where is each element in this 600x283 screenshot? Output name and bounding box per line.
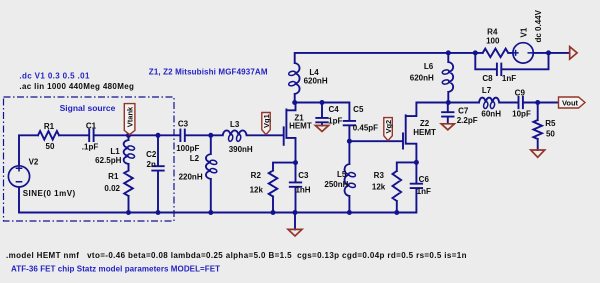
svg-text:R5: R5 — [545, 119, 556, 128]
svg-text:L7: L7 — [482, 86, 492, 95]
svg-text:60nH: 60nH — [481, 110, 501, 119]
svg-text:0.02: 0.02 — [104, 184, 120, 193]
svg-text:C2: C2 — [146, 150, 157, 159]
svg-text:L1: L1 — [110, 147, 120, 156]
svg-text:Vtank: Vtank — [126, 106, 135, 127]
svg-text:1nF: 1nF — [417, 187, 431, 196]
svg-text:100pF: 100pF — [176, 144, 199, 153]
svg-text:C4: C4 — [328, 105, 339, 114]
svg-text:Vout: Vout — [562, 98, 579, 107]
svg-text:HEMT: HEMT — [413, 128, 436, 137]
svg-text:Vg2: Vg2 — [384, 120, 393, 134]
svg-text:C7: C7 — [458, 106, 469, 115]
svg-text:C3: C3 — [298, 171, 309, 180]
svg-text:C3: C3 — [178, 119, 189, 128]
svg-text:.1pF: .1pF — [82, 142, 99, 151]
svg-text:C1: C1 — [86, 122, 97, 131]
svg-text:HEMT: HEMT — [289, 122, 312, 131]
svg-text:C6: C6 — [419, 175, 430, 184]
svg-text:12k: 12k — [250, 185, 264, 194]
svg-text:R2: R2 — [251, 171, 262, 180]
svg-text:R4: R4 — [487, 28, 498, 37]
svg-text:620nH: 620nH — [304, 77, 328, 86]
svg-text:100: 100 — [486, 37, 500, 46]
svg-text:.model HEMT nmf vto=-0.46 be: .model HEMT nmf vto=-0.46 beta=0.08 lamb… — [6, 251, 467, 260]
svg-text:L3: L3 — [230, 120, 240, 129]
svg-text:50: 50 — [546, 129, 555, 138]
svg-text:2.2pF: 2.2pF — [457, 116, 478, 125]
svg-text:L5: L5 — [337, 170, 347, 179]
svg-text:C9: C9 — [515, 88, 526, 97]
svg-text:50: 50 — [46, 142, 55, 151]
svg-text:.dc V1 0.3 0.5 .01: .dc V1 0.3 0.5 .01 — [19, 71, 90, 80]
svg-text:V2: V2 — [29, 157, 39, 166]
svg-text:Z1, Z2 Mitsubishi MGF4937AM: Z1, Z2 Mitsubishi MGF4937AM — [149, 67, 268, 76]
svg-text:V1: V1 — [520, 27, 529, 37]
svg-text:L2: L2 — [190, 154, 200, 163]
svg-text:1nH: 1nH — [295, 185, 310, 194]
svg-text:Signal source: Signal source — [60, 103, 116, 113]
svg-text:SINE(0 1mV): SINE(0 1mV) — [23, 189, 76, 198]
svg-text:0.45pF: 0.45pF — [353, 123, 378, 132]
svg-text:C8: C8 — [482, 74, 493, 83]
svg-text:62.5pH: 62.5pH — [95, 156, 121, 165]
svg-text:C5: C5 — [353, 105, 364, 114]
svg-text:10pF: 10pF — [512, 110, 531, 119]
svg-text:2n: 2n — [147, 160, 156, 169]
svg-text:Z2: Z2 — [420, 119, 430, 128]
svg-text:ATF-36 FET chip Statz model pa: ATF-36 FET chip Statz model parameters M… — [11, 264, 220, 273]
svg-text:12k: 12k — [372, 183, 386, 192]
svg-text:.ac lin 1000 440Meg 480Meg: .ac lin 1000 440Meg 480Meg — [19, 82, 134, 91]
svg-text:220nH: 220nH — [179, 173, 203, 182]
svg-text:L6: L6 — [424, 62, 434, 71]
svg-text:dc 0.44V: dc 0.44V — [534, 9, 543, 42]
svg-text:R3: R3 — [374, 171, 385, 180]
svg-text:390nH: 390nH — [229, 145, 253, 154]
svg-text:620nH: 620nH — [410, 74, 434, 83]
svg-text:Vg1: Vg1 — [262, 114, 271, 128]
svg-text:250nH: 250nH — [324, 180, 348, 189]
svg-text:R1: R1 — [44, 122, 55, 131]
svg-text:R1: R1 — [108, 172, 119, 181]
svg-text:1nF: 1nF — [502, 74, 516, 83]
svg-text:1pF: 1pF — [328, 117, 342, 126]
